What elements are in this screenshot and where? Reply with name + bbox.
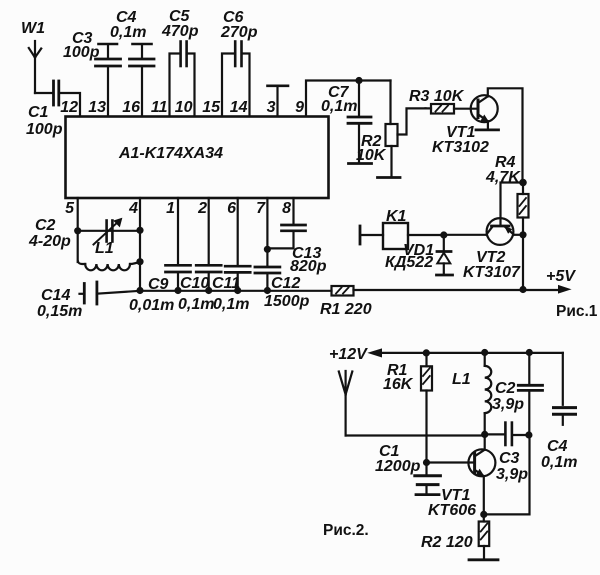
svg-text:100p: 100p <box>26 121 63 138</box>
svg-text:C12: C12 <box>271 275 300 292</box>
pin labels bottom <box>65 200 291 217</box>
resistor R2 120 <box>469 514 498 559</box>
svg-text:12: 12 <box>60 99 78 116</box>
svg-text:16K: 16K <box>383 376 414 393</box>
node at C7 <box>355 77 362 84</box>
capacitor C1 <box>54 81 59 105</box>
svg-text:9: 9 <box>295 99 304 116</box>
inductor L1 fig2 <box>485 353 492 435</box>
svg-text:0,1m: 0,1m <box>213 296 249 313</box>
resistor R4 4,7K <box>518 183 529 235</box>
transistor VT2 KT3107 <box>444 218 523 245</box>
transistor VT1 KT3102 <box>471 88 523 179</box>
svg-text:3: 3 <box>267 99 276 116</box>
svg-text:10: 10 <box>175 99 193 116</box>
svg-text:4: 4 <box>128 200 138 217</box>
svg-text:A1-K174XA34: A1-K174XA34 <box>118 145 223 162</box>
capacitor C5 <box>170 42 195 117</box>
svg-text:R2 120: R2 120 <box>421 534 473 551</box>
svg-text:1: 1 <box>166 200 175 217</box>
node C1/base <box>423 459 430 466</box>
rail nodes <box>423 349 430 356</box>
svg-text:5: 5 <box>65 200 75 217</box>
svg-text:R1 220: R1 220 <box>320 301 372 318</box>
capacitor C4 fig2 <box>554 408 576 425</box>
resistor R1 220 <box>332 286 354 296</box>
svg-text:15: 15 <box>202 99 221 116</box>
capacitor C14 <box>80 282 97 304</box>
diode VD1 KD522 <box>437 235 453 275</box>
svg-text:1200p: 1200p <box>375 458 421 475</box>
svg-text:K1: K1 <box>386 208 407 225</box>
svg-text:270p: 270p <box>220 24 258 41</box>
node collector <box>481 431 488 438</box>
capacitor C6 <box>222 42 250 117</box>
wire emitter to +5V rail <box>522 235 524 290</box>
svg-text:L1: L1 <box>95 240 114 257</box>
capacitor C11 <box>225 198 250 291</box>
+12V arrow <box>369 349 382 357</box>
resistor R1 16K <box>421 353 432 463</box>
svg-text:13: 13 <box>88 99 106 116</box>
rail to +5V <box>354 289 560 291</box>
capacitor C10 <box>196 198 221 291</box>
svg-text:C4: C4 <box>547 438 568 455</box>
svg-text:3,9p: 3,9p <box>496 466 528 483</box>
rail nodes <box>136 287 143 294</box>
node K1/VD1 <box>440 231 447 238</box>
capacitor C12 <box>255 198 280 291</box>
capacitor C7 <box>348 81 372 164</box>
inductor L1 fig1 <box>78 262 140 271</box>
node R4 top <box>519 179 527 187</box>
svg-text:W1: W1 <box>21 20 45 37</box>
capacitor C2 fig2 <box>518 353 542 436</box>
svg-text:8: 8 <box>282 200 291 217</box>
svg-text:Рис.1: Рис.1 <box>556 303 598 320</box>
capacitor C9 <box>166 198 191 291</box>
pin 3 stub <box>268 86 289 116</box>
node VT2 emitter <box>519 231 526 238</box>
svg-text:4-20p: 4-20p <box>28 233 71 250</box>
svg-text:11: 11 <box>151 99 168 116</box>
svg-text:470p: 470p <box>161 23 199 40</box>
svg-text:2: 2 <box>197 200 207 217</box>
capacitor C4 <box>130 44 155 116</box>
svg-text:+5V: +5V <box>546 268 576 285</box>
bottom rail <box>98 291 331 294</box>
pin 9 wire <box>306 81 391 117</box>
svg-text:C2: C2 <box>35 217 56 234</box>
svg-text:4,7K: 4,7K <box>485 169 521 186</box>
svg-text:+12V: +12V <box>329 346 368 363</box>
svg-text:L1: L1 <box>452 371 471 388</box>
capacitor C3 fig2 <box>485 423 529 445</box>
svg-text:KT3102: KT3102 <box>432 139 489 156</box>
svg-text:C9: C9 <box>148 276 169 293</box>
svg-text:0,1m: 0,1m <box>321 98 357 115</box>
capacitor C3 <box>96 44 121 116</box>
resistor R2 10K <box>378 81 426 178</box>
svg-text:Рис.2.: Рис.2. <box>323 522 369 539</box>
node L1 right <box>136 258 143 265</box>
relay K1 <box>360 223 444 249</box>
top rail <box>380 352 563 354</box>
svg-text:14: 14 <box>230 99 248 116</box>
svg-text:КД522: КД522 <box>385 254 433 271</box>
svg-text:100p: 100p <box>63 44 100 61</box>
wire antenna to collector <box>346 434 484 436</box>
IC U1 A1-K174XA34 <box>66 117 329 199</box>
wire <box>59 93 80 116</box>
wire <box>35 92 52 94</box>
svg-text:16: 16 <box>122 99 140 116</box>
svg-text:1500p: 1500p <box>264 293 310 310</box>
antenna W1 <box>29 41 41 93</box>
capacitor C13 <box>267 198 305 248</box>
svg-text:KT3107: KT3107 <box>463 264 521 281</box>
capacitor C1 fig2 <box>415 463 441 495</box>
resistor R3 10K <box>426 104 479 114</box>
node on +5V rail <box>519 286 526 293</box>
svg-text:KT606: KT606 <box>428 502 476 519</box>
svg-text:0,01m: 0,01m <box>129 297 174 314</box>
pin labels top <box>60 99 304 116</box>
svg-text:0,15m: 0,15m <box>37 303 82 320</box>
svg-text:820p: 820p <box>290 258 327 275</box>
svg-text:R3 10K: R3 10K <box>409 88 465 105</box>
svg-text:6: 6 <box>227 200 236 217</box>
trimmer capacitor C2 4-20p <box>74 198 143 262</box>
svg-text:7: 7 <box>256 200 266 217</box>
+5V arrow <box>559 286 571 293</box>
wire to VT2 base <box>501 183 524 225</box>
node emitter <box>480 511 487 518</box>
svg-text:C14: C14 <box>41 287 70 304</box>
svg-text:0,1m: 0,1m <box>178 296 214 313</box>
wire down to emitter <box>484 435 530 514</box>
svg-text:C11: C11 <box>212 275 240 292</box>
node C2/C3 <box>525 431 532 438</box>
transistor VT1 KT606 <box>427 434 496 514</box>
svg-text:3,9p: 3,9p <box>492 396 524 413</box>
svg-text:C3: C3 <box>499 450 520 467</box>
right corner to C4 <box>562 353 564 405</box>
antenna fig2 <box>339 371 353 436</box>
svg-text:C10: C10 <box>180 275 209 292</box>
svg-text:C2: C2 <box>495 380 516 397</box>
svg-text:10K: 10K <box>356 147 387 164</box>
svg-text:C1: C1 <box>28 104 49 121</box>
svg-text:0,1m: 0,1m <box>541 454 577 471</box>
node pin7/C13 <box>264 246 271 253</box>
svg-text:0,1m: 0,1m <box>110 24 146 41</box>
pin 4 wire <box>139 198 141 291</box>
